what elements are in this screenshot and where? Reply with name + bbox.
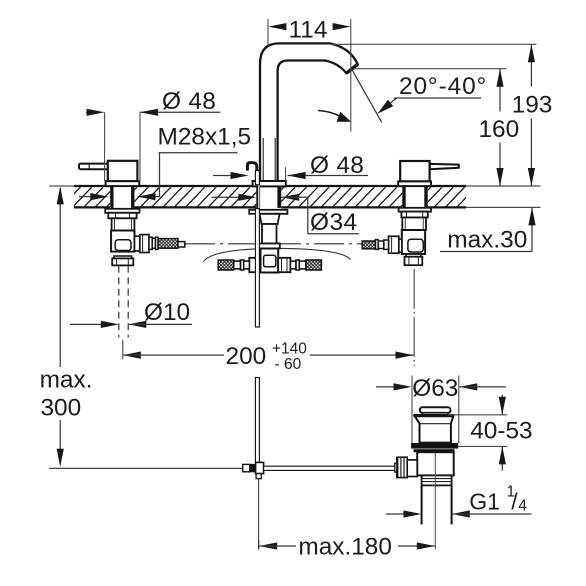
svg-text:- 60: - 60 (275, 356, 302, 373)
drain joint band (422, 475, 452, 485)
dim 114 (350, 19, 352, 132)
svg-text:Ø 48: Ø 48 (310, 152, 364, 179)
tee right pipe (290, 261, 296, 269)
dim max.30 (531, 207, 533, 251)
rod lower stub (256, 474, 261, 479)
centre washer (249, 210, 287, 214)
dim G1 1/4 (386, 513, 404, 515)
right compression nut (389, 236, 399, 253)
dim max.180 (258, 540, 260, 550)
left valve elbow (111, 231, 134, 252)
pop-up rod (255, 171, 259, 185)
tee right braid hose (306, 260, 322, 270)
svg-text:+140: +140 (272, 341, 307, 358)
tee right fitting (299, 261, 306, 269)
right valve elbow (402, 230, 425, 254)
tee left nut (249, 258, 260, 272)
drain mid body (417, 452, 454, 475)
left valve bottom washer (114, 256, 132, 258)
left valve lower body (112, 218, 135, 230)
dim oe48 left (104, 112, 106, 181)
dim 200 +140/-60 (123, 352, 141, 359)
tee left pipe (244, 261, 250, 269)
tee left braid hose (218, 260, 234, 270)
dim 114 left extension line (267, 19, 269, 57)
svg-text:114: 114 (289, 16, 328, 43)
deck hatching (60, 186, 489, 209)
right hose pipe (378, 241, 384, 249)
tee right nut (278, 258, 290, 272)
left braid hose (158, 239, 178, 249)
right valve deck hole (402, 185, 427, 209)
dim max.300 (59, 188, 61, 367)
drain knurled knob (397, 457, 407, 477)
spout riser inner wall lines (262, 138, 264, 181)
tee body (261, 249, 279, 273)
left valve flange (106, 181, 140, 186)
spout escutcheon flange (253, 181, 286, 186)
right hose rings (384, 240, 389, 249)
right outlet plate (399, 239, 402, 252)
svg-text:300: 300 (40, 394, 81, 421)
dim 160 reference line (354, 68, 507, 70)
left valve bottom nut (112, 258, 133, 265)
svg-text:/: / (511, 489, 518, 515)
tee right ring (296, 260, 299, 270)
svg-text:200: 200 (226, 343, 267, 370)
svg-text:4: 4 (518, 497, 527, 514)
drain rim (413, 414, 454, 416)
drain knob cap (420, 407, 451, 413)
dim 160 (499, 69, 501, 112)
svg-text:40-53: 40-53 (470, 417, 532, 444)
svg-text:20°-40°: 20°-40° (399, 73, 487, 100)
left valve dashed rod (oe10) (118, 266, 120, 338)
centre shank (260, 214, 280, 224)
right valve centre line (413, 269, 415, 366)
deck top line (49, 185, 74, 187)
right valve locknut (401, 212, 427, 218)
svg-text:Ø63: Ø63 (412, 375, 458, 402)
svg-text:Ø 48: Ø 48 (162, 88, 216, 115)
pop-up rod hook (247, 163, 256, 172)
horizontal rod tube (264, 466, 396, 470)
dim 193 reference line (330, 43, 537, 45)
left valve washer (105, 209, 139, 213)
left compression nut (140, 235, 149, 253)
left valve lever (79, 164, 108, 170)
tee left fitting (234, 261, 241, 269)
drain stub (395, 463, 397, 472)
dim oe63 (411, 376, 413, 444)
rod centre extension line (258, 479, 260, 550)
right valve body (400, 161, 429, 181)
centre tube (262, 224, 277, 244)
right braid hose (362, 241, 375, 249)
right valve washer (399, 208, 431, 212)
svg-text:max.30: max.30 (447, 227, 527, 254)
svg-text:193: 193 (512, 91, 553, 118)
left valve body (108, 161, 138, 181)
center deck hole (256, 185, 281, 209)
rod connector (243, 464, 250, 471)
drain upper body (415, 416, 454, 442)
right valve lower body (402, 218, 426, 231)
horizontal rod thin left part (49, 467, 243, 469)
svg-text:M28x1,5: M28x1,5 (158, 124, 252, 151)
hose loop ellipse arc (204, 248, 351, 261)
dim 193 (530, 44, 532, 86)
right valve bottom washer (406, 254, 421, 257)
left hose pipe (152, 238, 155, 248)
deck bottom line (74, 206, 466, 208)
left hose ring2 (156, 237, 159, 249)
dim oe10 (70, 323, 101, 325)
svg-text:G1: G1 (469, 489, 500, 515)
dim oe48 centre (285, 167, 287, 181)
angle leader arrow (394, 97, 481, 99)
faucet spout (260, 43, 358, 182)
right valve flange (398, 181, 431, 186)
left valve deck hole (110, 185, 134, 209)
svg-text:160: 160 (478, 116, 519, 143)
svg-text:Ø34: Ø34 (310, 209, 358, 236)
angle reference line (352, 69, 382, 122)
tee left ring (240, 260, 243, 270)
drain outlet box (407, 460, 417, 477)
spout tip face (346, 64, 358, 73)
left valve locknut (108, 213, 136, 219)
dim oe34 (212, 196, 240, 198)
left outlet plate (135, 236, 140, 251)
svg-text:Ø10: Ø10 (144, 299, 190, 326)
left valve centre tick (122, 340, 124, 359)
M28 leader (159, 152, 238, 154)
dim 40-53 (448, 414, 507, 416)
right hose ring2 (375, 240, 378, 250)
hose centre dash-dot line (185, 243, 362, 245)
left hose end fitting (178, 242, 185, 247)
right valve lever (430, 164, 459, 169)
svg-text:max.: max. (40, 366, 93, 393)
centre joint band (257, 244, 280, 249)
swivel arc arrow (318, 111, 346, 120)
right valve bottom nut (405, 257, 423, 266)
drain seal flange (411, 443, 458, 449)
drain centre line (434, 453, 436, 550)
drain tailpipe (421, 485, 423, 524)
svg-text:max.180: max.180 (298, 533, 392, 560)
left hose ring (149, 237, 152, 249)
